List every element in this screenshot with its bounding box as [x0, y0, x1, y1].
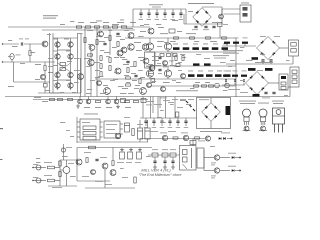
svg-text:“The End Millenium” clone: “The End Millenium” clone — [139, 173, 182, 177]
svg-text:MILL VER 4 (VL): MILL VER 4 (VL) — [141, 167, 171, 172]
